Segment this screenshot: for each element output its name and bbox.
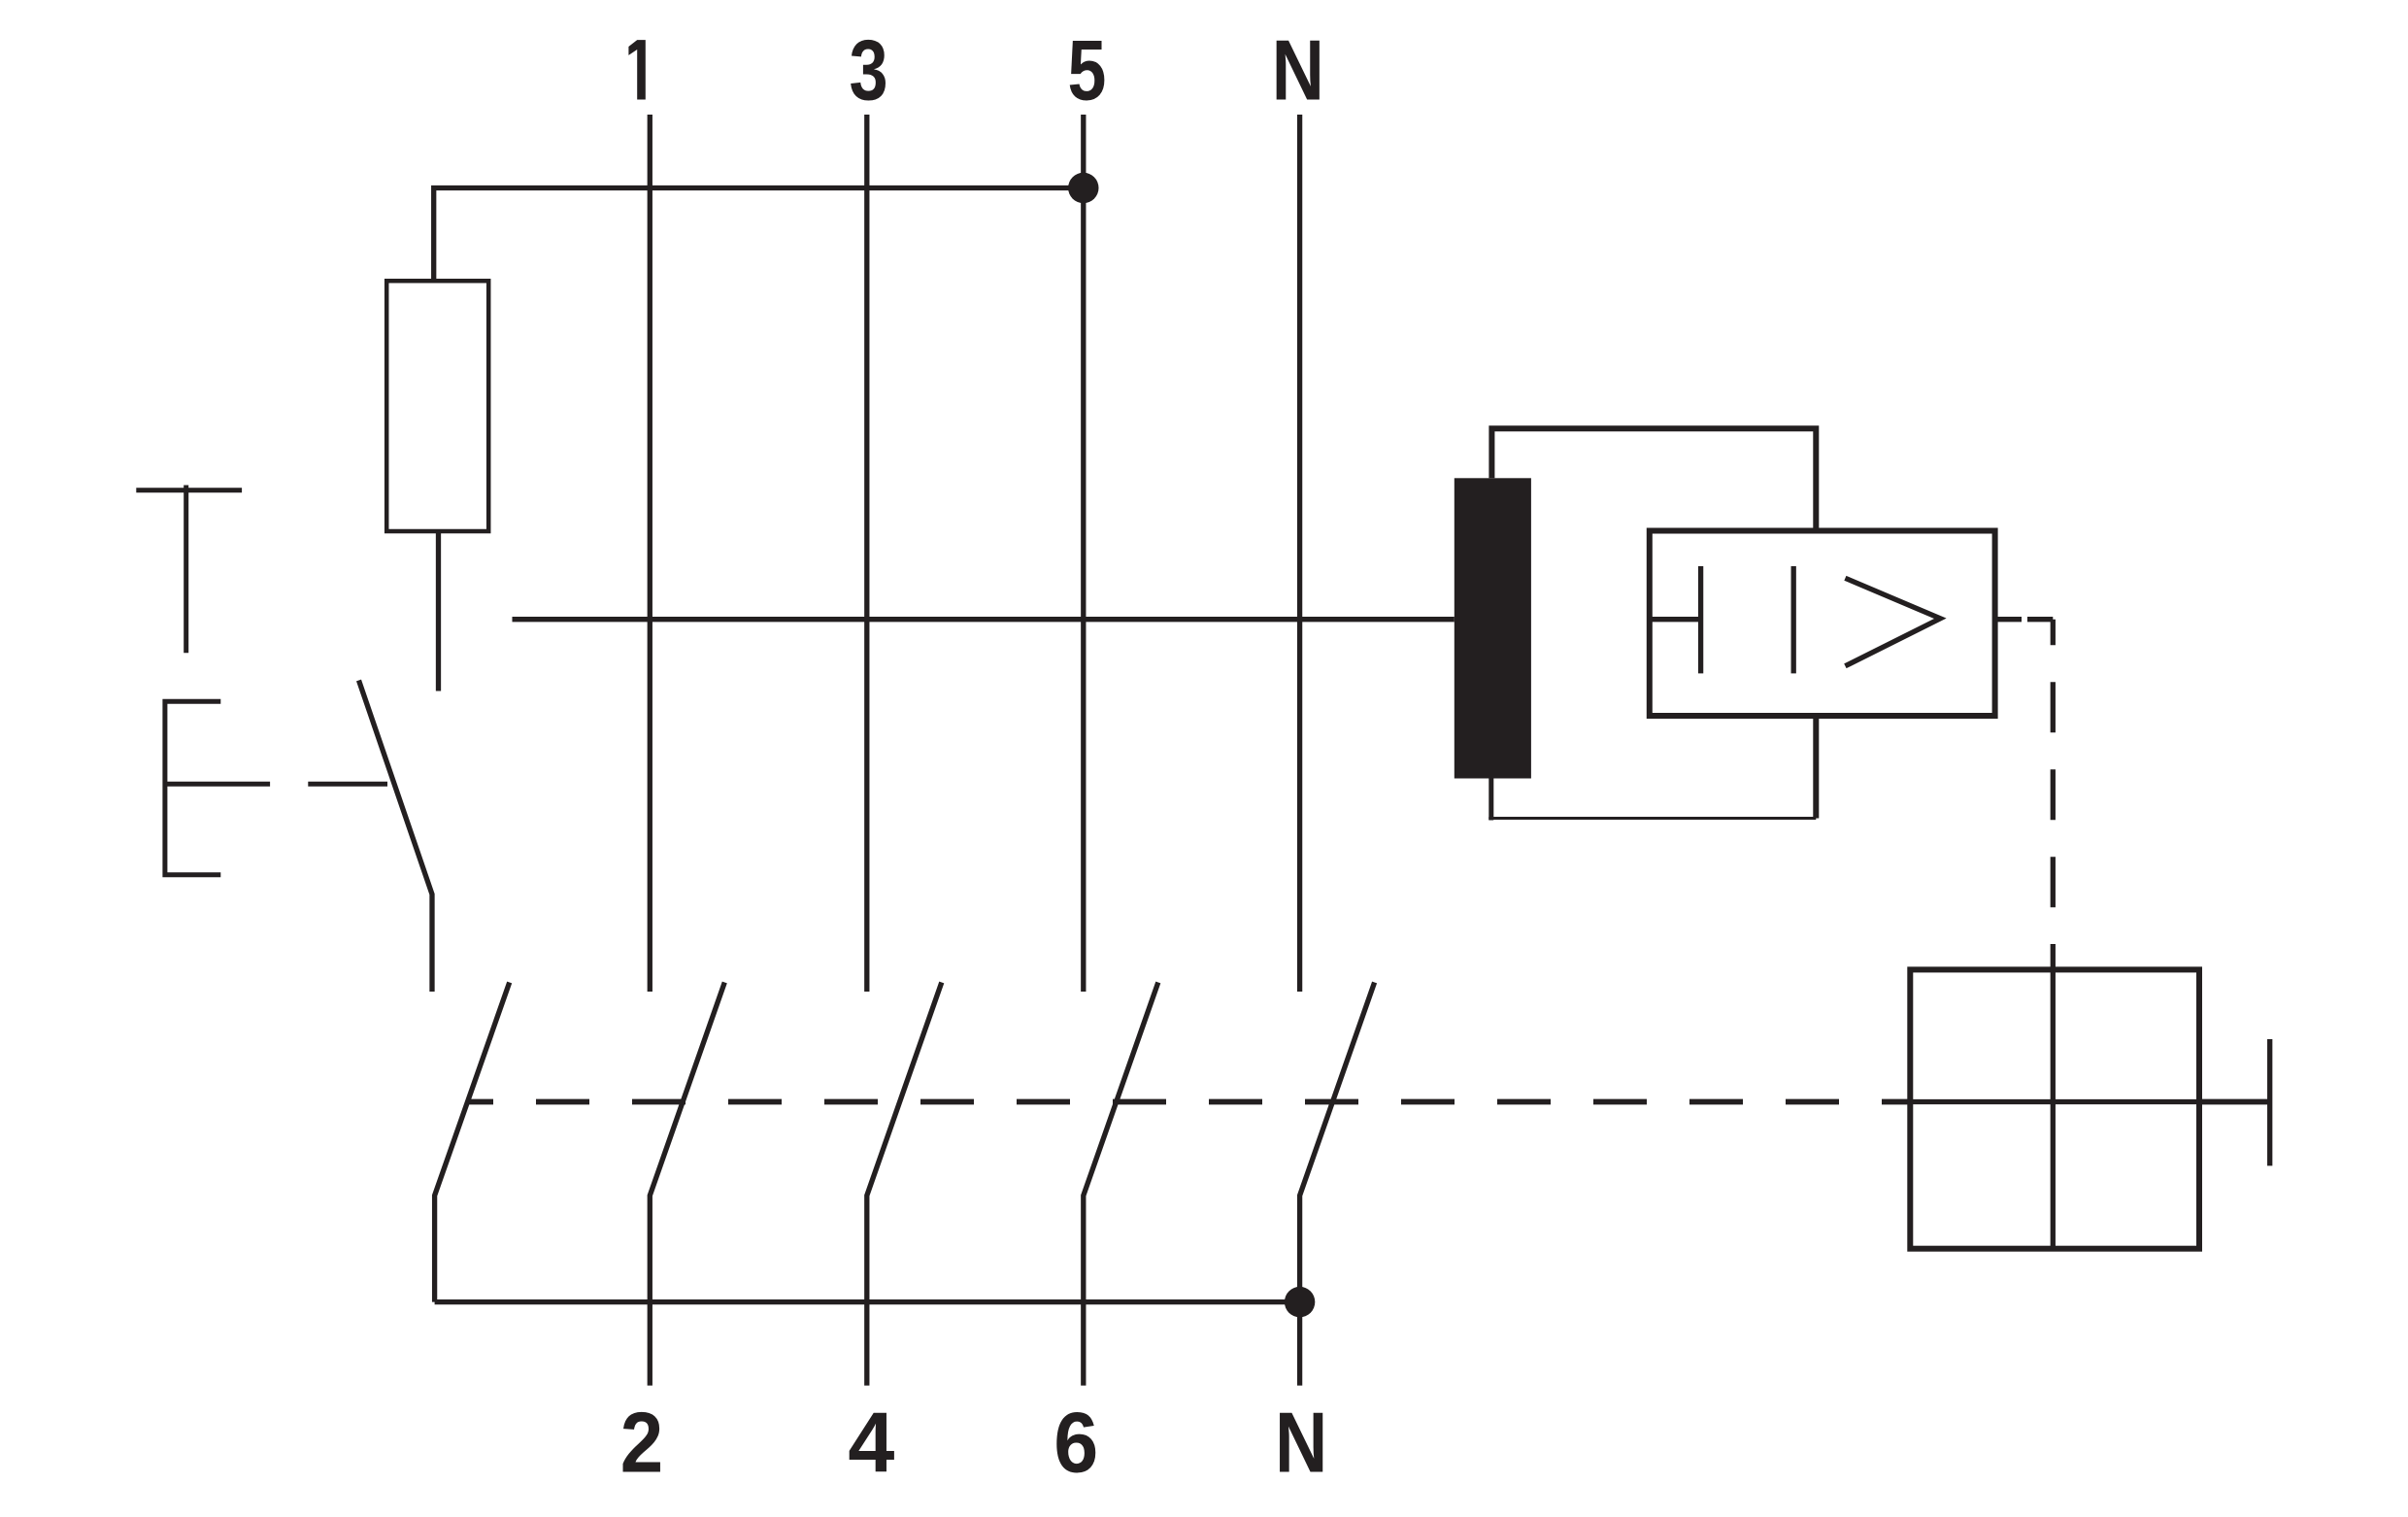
anchor bar [2267, 1039, 2272, 1165]
svg-text:N: N [1275, 1395, 1327, 1491]
svg-text:4: 4 [848, 1395, 894, 1491]
switch pole 2 blade [650, 983, 724, 1386]
CT secondary bottom wire [1488, 817, 1816, 820]
switch main blade (test switch) [359, 681, 433, 993]
mech link from button [165, 782, 270, 787]
CT secondary winding loop [1491, 428, 1816, 530]
switch pole 4 blade [1084, 983, 1158, 1386]
trip mechanism box [1910, 969, 2199, 1248]
svg-text:2: 2 [620, 1395, 663, 1491]
wire main horizontal to CT [513, 617, 1455, 622]
svg-text:5: 5 [1067, 21, 1106, 118]
relay output stub [1995, 617, 2022, 622]
switch pole N blade [1300, 983, 1375, 1386]
CT secondary lower lead [1488, 779, 1493, 821]
wire top horizontal from resistor branch to node on line 5 [434, 188, 1084, 282]
pole line 1 [648, 115, 652, 992]
relay bar 2 [1791, 566, 1796, 673]
pole line 3 [864, 115, 869, 992]
relay threshold symbol [1845, 578, 1940, 666]
svg-text:3: 3 [849, 21, 887, 118]
svg-text:6: 6 [1053, 1395, 1098, 1491]
relay K (trip coil box) [1650, 531, 1995, 717]
trip box horizontal through [1910, 1099, 2199, 1104]
relay output dash [2027, 617, 2053, 622]
wire bottom bus [435, 1299, 1300, 1304]
pole line 5 [1081, 115, 1086, 992]
mech link dash to switch blade [308, 782, 387, 787]
CT core (current transformer) [1455, 478, 1531, 778]
wire dashed vertical to trip box [2051, 620, 2056, 944]
pole line N [1297, 115, 1302, 992]
test button housing bracket [165, 701, 220, 875]
relay lower lead [1813, 716, 1819, 819]
resistor R (test resistor) [386, 281, 488, 531]
relay bar 1 [1698, 566, 1703, 673]
wire resistor lower lead [436, 531, 441, 691]
mech coupling solid through trip box to anchor [1910, 1099, 2269, 1105]
label 1 [628, 40, 645, 99]
mech coupling dashed line across blades [468, 1099, 1910, 1105]
node junction on line 5 [1068, 173, 1098, 203]
svg-text:N: N [1272, 21, 1324, 118]
node junction on N pole [1285, 1287, 1315, 1317]
trip box center vertical [2051, 944, 2056, 1249]
switch pole 3 blade [867, 983, 942, 1386]
relay input stub [1650, 617, 1701, 622]
switch pole 1 lower blade [435, 983, 510, 1302]
test button T actuator [136, 488, 242, 492]
